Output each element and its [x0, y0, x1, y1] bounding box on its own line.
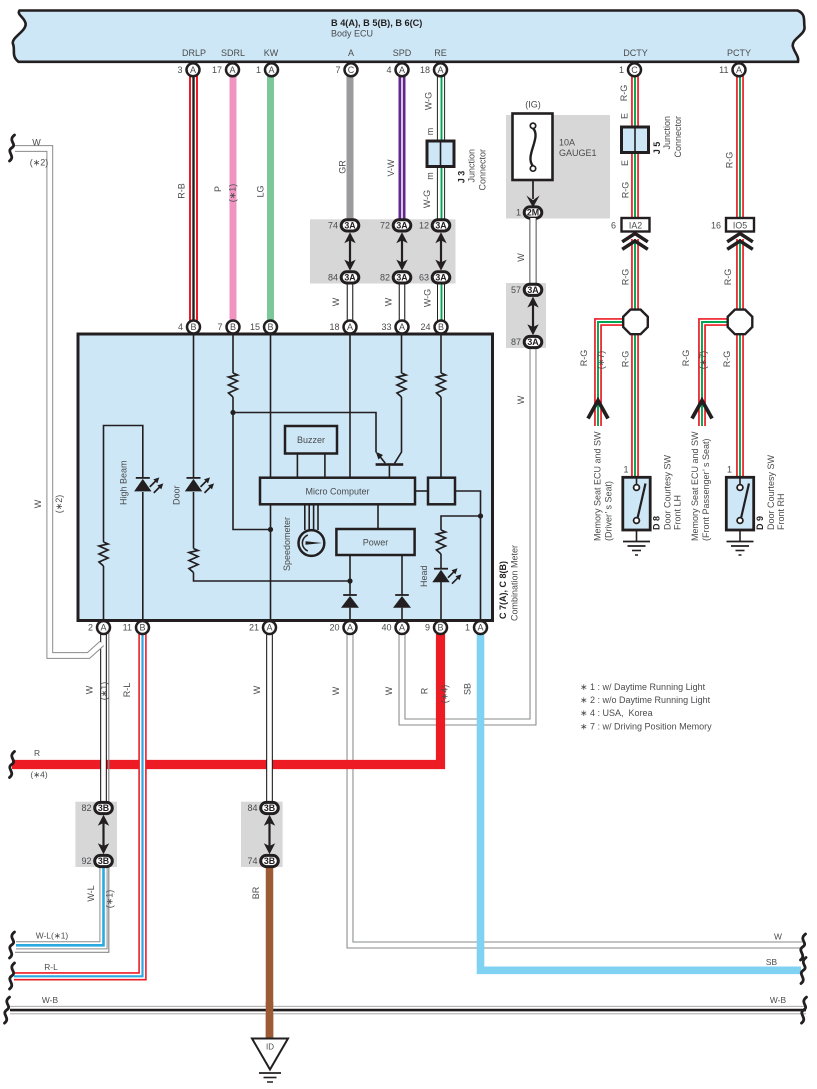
- svg-text:(∗1): (∗1): [105, 890, 115, 909]
- svg-text:(∗1): (∗1): [99, 682, 109, 701]
- junction connector J5: [622, 116, 684, 158]
- connector pair 12-3A / 63-3A: [419, 220, 450, 283]
- wire from pin 18A to micro computer: [349, 334, 351, 478]
- svg-text:D 8: D 8: [652, 516, 662, 530]
- wire W-G from 63-3A to meter pin 24B: [437, 283, 446, 321]
- svg-text:(IG): (IG): [525, 100, 541, 110]
- notes legend: [580, 682, 712, 731]
- transistor Q1: [376, 452, 404, 478]
- LED door: [185, 477, 214, 493]
- svg-text:3B: 3B: [98, 803, 109, 813]
- connector pair 72-3A / 82-3A: [380, 220, 411, 283]
- junction connector J3: [427, 141, 488, 191]
- svg-text:W-B: W-B: [770, 995, 787, 1005]
- svg-text:3A: 3A: [344, 273, 356, 283]
- svg-text:B: B: [190, 322, 196, 332]
- wire R-G (*7) branch to Memory Seat ECU (driver): [598, 322, 625, 426]
- svg-text:B: B: [230, 322, 236, 332]
- svg-text:A: A: [437, 65, 443, 75]
- svg-text:1: 1: [623, 465, 628, 475]
- horizontal bus labels: [30, 748, 786, 1005]
- svg-text:W: W: [331, 297, 341, 306]
- svg-text:A: A: [399, 623, 405, 633]
- door courtesy switch D 8: [623, 465, 650, 531]
- wire R-L from meter pin 11B to left page break: [14, 633, 143, 976]
- wire GR from A pin 7C to junction 74-3A: [347, 75, 354, 221]
- svg-text:Junction: Junction: [467, 149, 477, 183]
- wire door chain from pin 4B down to junction with pin 20A chain: [194, 334, 351, 581]
- svg-text:Door: Door: [171, 485, 181, 505]
- svg-text:R-G: R-G: [621, 351, 631, 368]
- svg-text:SB: SB: [463, 683, 473, 695]
- svg-text:A: A: [347, 322, 353, 332]
- label door: [171, 485, 181, 505]
- svg-text:7: 7: [335, 65, 340, 75]
- wire W-G from RE pin 18A to junction 12-3A: [437, 75, 446, 221]
- svg-text:3A: 3A: [344, 221, 356, 231]
- svg-text:1: 1: [619, 65, 624, 75]
- svg-text:9: 9: [425, 623, 430, 633]
- svg-text:R-G: R-G: [619, 85, 629, 102]
- svg-text:R-G: R-G: [681, 350, 691, 367]
- wire R-G from IO5 chevrons to door courtesy SW D9 via splice: [736, 239, 744, 478]
- page break W right: [801, 934, 806, 960]
- svg-text:(∗2): (∗2): [54, 495, 64, 514]
- wire W-B bus across bottom: [10, 1006, 806, 1014]
- micro computer box: [260, 478, 415, 505]
- svg-text:IO5: IO5: [733, 221, 747, 231]
- meter top pins 4B 7B 15B 18A 33A 24B: [178, 321, 448, 334]
- svg-text:3A: 3A: [396, 221, 408, 231]
- svg-text:R: R: [34, 748, 40, 758]
- wire V-W from SPD pin 4A to junction 72-3A: [399, 75, 406, 221]
- svg-text:1: 1: [727, 465, 732, 475]
- page break SB right: [801, 958, 806, 984]
- splice octagon DCTY: [623, 310, 648, 335]
- harness chevrons under IO5: [727, 234, 753, 250]
- svg-text:SB: SB: [766, 957, 778, 967]
- svg-text:3A: 3A: [396, 273, 408, 283]
- svg-text:Buzzer: Buzzer: [297, 435, 325, 445]
- arrow to Memory Seat ECU and SW (passenger): [692, 401, 712, 419]
- connector pair 74-3A / 84-3A: [328, 220, 359, 283]
- svg-text:R-B: R-B: [177, 183, 187, 199]
- svg-text:R-G: R-G: [725, 152, 735, 169]
- svg-text:W: W: [85, 685, 95, 694]
- svg-text:18: 18: [420, 65, 430, 75]
- gray box of junction pair 82/92 3B: [75, 802, 117, 867]
- svg-text:PCTY: PCTY: [727, 48, 751, 58]
- svg-text:18: 18: [329, 322, 339, 332]
- svg-text:10A: 10A: [559, 138, 575, 148]
- svg-text:IA2: IA2: [629, 221, 642, 231]
- svg-text:SPD: SPD: [393, 48, 412, 58]
- connector pair 82-3B / 92-3B: [81, 802, 112, 866]
- wire W from meter pin 21A to 84-3B: [266, 633, 273, 803]
- page break W-L left: [10, 932, 15, 958]
- gray highlight box around GAUGE1 fuse: [506, 115, 610, 219]
- svg-text:82: 82: [81, 803, 91, 813]
- connector box 16 IO5: [711, 218, 754, 232]
- banner connector names: [182, 48, 751, 58]
- svg-text:Junction: Junction: [662, 116, 672, 150]
- svg-text:ID: ID: [266, 1043, 274, 1052]
- door courtesy switch D 9: [726, 465, 753, 531]
- svg-text:B: B: [267, 322, 273, 332]
- svg-text:74: 74: [328, 220, 338, 230]
- svg-text:m: m: [425, 128, 435, 136]
- svg-text:3A: 3A: [527, 285, 539, 295]
- svg-text:24: 24: [420, 322, 430, 332]
- svg-text:W: W: [33, 499, 43, 508]
- svg-text:3A: 3A: [527, 337, 539, 347]
- page break R left: [10, 752, 15, 778]
- svg-text:P: P: [213, 186, 223, 192]
- svg-text:21: 21: [249, 623, 259, 633]
- svg-text:B: B: [437, 623, 443, 633]
- svg-text:RE: RE: [434, 48, 447, 58]
- svg-text:4: 4: [386, 65, 391, 75]
- svg-text:LG: LG: [256, 185, 266, 197]
- door courtesy switch labels: [652, 454, 683, 530]
- svg-text:Combination Meter: Combination Meter: [510, 545, 520, 621]
- meter designation C 7(A), C 8(B) Combination Meter: [498, 545, 520, 621]
- svg-text:W-G: W-G: [424, 92, 434, 110]
- wire W from 87-3A down, left and up to meter pin 40A: [402, 346, 533, 722]
- resistor on pin 24B chain: [437, 373, 446, 397]
- svg-text:16: 16: [711, 221, 721, 231]
- wire labels bottom section: [85, 682, 473, 909]
- svg-text:Head: Head: [419, 565, 429, 587]
- svg-text:V-W: V-W: [386, 159, 396, 177]
- gray box of junction pairs 74/84 72/82 12/63: [310, 219, 456, 283]
- svg-text:C: C: [631, 65, 638, 75]
- svg-text:Speedometer: Speedometer: [282, 517, 292, 571]
- svg-text:3: 3: [177, 65, 182, 75]
- svg-text:DCTY: DCTY: [623, 48, 648, 58]
- wire R (*4) thick bus from left page break to meter pin 9B: [12, 633, 441, 765]
- resistor on pin 7B chain: [229, 373, 238, 397]
- Body ECU pins 3A 17A 1A 7C 4A 18A 1C 11A: [177, 63, 745, 76]
- svg-text:(Driver’ s Seat): (Driver’ s Seat): [604, 481, 614, 541]
- wire BR crossing over W-B: [266, 1002, 274, 1039]
- svg-text:B 4(A), B 5(B), B 6(C): B 4(A), B 5(B), B 6(C): [331, 18, 422, 28]
- svg-text:12: 12: [419, 220, 429, 230]
- wire W (*2) from left page break joining pin 2A wire: [15, 149, 102, 656]
- svg-text:Door Courtesy SW: Door Courtesy SW: [766, 454, 776, 530]
- svg-text:11: 11: [123, 623, 132, 633]
- svg-text:(∗7): (∗7): [596, 351, 606, 370]
- svg-text:High Beam: High Beam: [118, 460, 128, 505]
- wire W (*1) from meter pin 2A to 82-3B: [100, 633, 107, 803]
- svg-text:17: 17: [212, 65, 222, 75]
- svg-text:A: A: [100, 623, 106, 633]
- svg-text:3A: 3A: [435, 273, 447, 283]
- svg-text:3B: 3B: [264, 803, 275, 813]
- resistor on pin 33A chain: [397, 373, 406, 397]
- svg-text:GR: GR: [338, 160, 348, 174]
- svg-text:40: 40: [381, 623, 391, 633]
- svg-text:1: 1: [256, 65, 261, 75]
- svg-text:E: E: [620, 113, 630, 119]
- svg-text:(Front Passenger’ s Seat): (Front Passenger’ s Seat): [701, 438, 711, 541]
- svg-text:R-G: R-G: [579, 350, 589, 367]
- svg-text:1: 1: [516, 208, 521, 218]
- arrow to Memory Seat ECU and SW (driver): [588, 401, 608, 419]
- svg-text:W-L: W-L: [86, 885, 96, 901]
- svg-text:11: 11: [719, 65, 728, 75]
- connector box 6 IA2: [611, 218, 650, 232]
- svg-text:R-G: R-G: [722, 351, 732, 368]
- wire W from 82-3A to meter pin 33A: [399, 283, 406, 321]
- svg-text:C 7(A), C 8(B): C 7(A), C 8(B): [498, 561, 508, 619]
- wire R-G from DCTY pin 1C to J5: [631, 75, 639, 129]
- svg-text:Power: Power: [363, 538, 389, 548]
- svg-text:33: 33: [381, 322, 391, 332]
- svg-text:W: W: [516, 253, 526, 262]
- wire P (*1) from SDRL pin 17A to meter pin 7B: [230, 75, 237, 321]
- svg-text:Memory Seat ECU and SW: Memory Seat ECU and SW: [593, 431, 603, 541]
- connector pair 84-3B / 74-3B: [247, 802, 278, 866]
- svg-text:W: W: [32, 138, 41, 148]
- svg-text:Body ECU: Body ECU: [331, 29, 373, 39]
- memory seat ECU labels: [593, 431, 614, 541]
- connector pair 57-3A / 87-3A: [511, 284, 542, 347]
- svg-text:A: A: [229, 65, 235, 75]
- svg-text:B: B: [438, 322, 444, 332]
- wire LG from KW pin 1A to meter pin 15B: [267, 75, 274, 321]
- wire R-B from Body ECU DRLP pin 3A to meter pin 4B: [189, 75, 198, 321]
- connector oval 1 2M: [516, 207, 542, 218]
- svg-text:R-L: R-L: [122, 683, 132, 698]
- svg-text:C: C: [348, 65, 355, 75]
- wire from pin 15B to micro computer and down to pin 21A: [270, 334, 272, 621]
- svg-text:W-B: W-B: [42, 995, 59, 1005]
- svg-text:m: m: [425, 172, 435, 180]
- svg-text:1: 1: [465, 623, 470, 633]
- label head: [419, 565, 429, 587]
- svg-text:W: W: [384, 297, 394, 306]
- buzzer box: [285, 426, 337, 478]
- svg-text:GAUGE1: GAUGE1: [559, 148, 597, 158]
- svg-text:A: A: [736, 65, 742, 75]
- svg-text:20: 20: [329, 623, 339, 633]
- wire from pin 7B through resistor to transistor emitter line and micro computer: [233, 334, 376, 530]
- wire from pin 24B through resistor to logic box: [440, 334, 442, 478]
- svg-text:15: 15: [250, 322, 260, 332]
- svg-text:R: R: [420, 687, 430, 694]
- svg-text:D 9: D 9: [755, 516, 765, 530]
- svg-text:R-G: R-G: [621, 269, 631, 286]
- svg-text:2M: 2M: [527, 208, 539, 218]
- svg-text:SDRL: SDRL: [221, 48, 245, 58]
- wire labels top section: [177, 85, 735, 405]
- svg-text:J 5: J 5: [652, 142, 662, 155]
- wire R-G (*7) branch to Memory Seat ECU (passenger): [702, 322, 729, 426]
- svg-text:KW: KW: [264, 48, 279, 58]
- svg-text:∗ 2 : w/o Daytime Running Ligh: ∗ 2 : w/o Daytime Running Light: [580, 695, 711, 705]
- svg-text:W: W: [331, 686, 341, 695]
- svg-text:B: B: [139, 623, 145, 633]
- svg-text:3A: 3A: [435, 221, 447, 231]
- svg-text:(∗1): (∗1): [228, 184, 238, 203]
- speedometer: [282, 504, 324, 571]
- svg-text:A: A: [399, 322, 405, 332]
- LED head: [432, 568, 461, 584]
- svg-text:(∗4): (∗4): [30, 770, 47, 780]
- svg-text:A: A: [347, 623, 353, 633]
- svg-text:4: 4: [178, 322, 183, 332]
- gray box of junction pair 84/74 3B: [241, 802, 283, 867]
- svg-text:A: A: [266, 623, 272, 633]
- svg-text:∗ 4 : USA, Korea: ∗ 4 : USA, Korea: [580, 708, 653, 718]
- svg-text:∗ 1 : w/ Daytime Running Light: ∗ 1 : w/ Daytime Running Light: [580, 682, 706, 692]
- svg-text:Connector: Connector: [478, 149, 488, 191]
- combination meter box C7(A), C8(B): [78, 334, 493, 621]
- thin wire (*1) bypass along pin 2A wire down to left page break: [15, 633, 109, 952]
- svg-text:3B: 3B: [264, 856, 275, 866]
- ground under D 9: [727, 530, 754, 555]
- svg-text:72: 72: [380, 220, 390, 230]
- ground ID triangle: [252, 1039, 288, 1083]
- svg-text:(∗2): (∗2): [30, 158, 49, 168]
- resistor in high beam chain: [99, 542, 108, 566]
- wire SB from meter pin 1A to right page break: [481, 633, 802, 970]
- svg-text:A: A: [268, 65, 274, 75]
- svg-text:W: W: [774, 931, 782, 941]
- wire R-G from PCTY pin 11A to IO5: [736, 75, 744, 219]
- svg-text:3B: 3B: [98, 856, 109, 866]
- labels W (*2) on left wire: [30, 138, 49, 168]
- svg-text:E: E: [620, 160, 630, 166]
- svg-text:Micro Computer: Micro Computer: [305, 487, 369, 497]
- svg-text:57: 57: [511, 285, 521, 295]
- splice octagon PCTY: [728, 310, 753, 335]
- fuse 10A GAUGE1 (IG): [513, 100, 597, 181]
- wire W-L from 92-3B to left page break: [16, 866, 104, 945]
- logic box right of micro computer: [415, 478, 481, 621]
- svg-text:2: 2: [88, 623, 93, 633]
- wire BR from 74-3B to ground ID: [266, 866, 274, 1041]
- LED high beam: [134, 477, 163, 493]
- svg-text:87: 87: [511, 337, 521, 347]
- page break R-L left: [10, 963, 15, 989]
- harness chevrons under IA2: [622, 234, 648, 250]
- svg-text:84: 84: [247, 803, 257, 813]
- wire W from meter pin 20A to right page break: [350, 633, 802, 945]
- svg-text:DRLP: DRLP: [182, 48, 206, 58]
- wire R-G from J5 to IA2: [631, 151, 639, 219]
- svg-text:W: W: [384, 686, 394, 695]
- svg-text:A: A: [399, 65, 405, 75]
- svg-text:63: 63: [419, 272, 429, 282]
- svg-text:Front RH: Front RH: [776, 493, 786, 530]
- diode on pin 40A chain: [393, 595, 411, 608]
- page break W*2 left: [10, 135, 15, 161]
- head LED chain resistor: [440, 554, 442, 621]
- wire from pin 33A through resistor to transistor collector: [395, 334, 402, 463]
- svg-text:92: 92: [81, 856, 91, 866]
- diode on pin 20A chain: [341, 595, 359, 608]
- svg-text:A: A: [477, 623, 483, 633]
- page break W-B right: [802, 997, 807, 1023]
- gray box of junction pair 57/87: [506, 283, 546, 348]
- svg-text:W-G: W-G: [422, 190, 432, 208]
- svg-text:(∗4): (∗4): [440, 685, 450, 704]
- label high beam: [118, 460, 128, 505]
- resistor in door chain: [189, 549, 198, 573]
- wire W from 84-3A to meter pin 18A: [347, 283, 354, 321]
- svg-text:A: A: [348, 48, 354, 58]
- svg-text:BR: BR: [251, 886, 261, 899]
- svg-text:6: 6: [611, 221, 616, 231]
- svg-text:∗ 7 : w/ Driving Position Memo: ∗ 7 : w/ Driving Position Memory: [580, 721, 712, 731]
- svg-text:Memory Seat ECU and SW: Memory Seat ECU and SW: [690, 431, 700, 541]
- power box: [336, 504, 414, 621]
- svg-text:J 3: J 3: [457, 171, 467, 184]
- wire W from 2M to 57-3A: [530, 218, 537, 286]
- meter bottom pins 2A 11B 21A 20A 40A 9B 1A: [88, 621, 487, 634]
- svg-text:7: 7: [217, 322, 222, 332]
- page break W-B left: [5, 997, 10, 1023]
- svg-text:R-G: R-G: [621, 182, 631, 199]
- svg-text:W: W: [252, 685, 262, 694]
- wire R-G from IA2 chevrons to door courtesy SW D8 via splice: [631, 239, 639, 478]
- svg-text:(∗7): (∗7): [698, 351, 708, 370]
- svg-text:W-L(∗1): W-L(∗1): [36, 931, 69, 941]
- junction dots inside meter: [230, 410, 483, 584]
- svg-text:84: 84: [328, 272, 338, 282]
- svg-text:R-G: R-G: [723, 269, 733, 286]
- Body ECU banner B4(A),B5(B),B6(C): [13, 11, 805, 62]
- wire high beam chain from pin 2A up over to pin 11B: [104, 426, 143, 622]
- svg-text:Door Courtesy SW: Door Courtesy SW: [663, 454, 673, 530]
- svg-text:82: 82: [380, 272, 390, 282]
- svg-text:R-L: R-L: [44, 962, 58, 972]
- svg-text:Front LH: Front LH: [673, 495, 683, 530]
- svg-text:Connector: Connector: [673, 116, 683, 158]
- svg-text:W: W: [516, 395, 526, 404]
- svg-text:W-G: W-G: [423, 289, 433, 307]
- ground under D 8: [623, 530, 650, 555]
- svg-text:74: 74: [247, 856, 257, 866]
- svg-text:A: A: [190, 65, 196, 75]
- arrow from fuse to connector 2M: [526, 180, 539, 208]
